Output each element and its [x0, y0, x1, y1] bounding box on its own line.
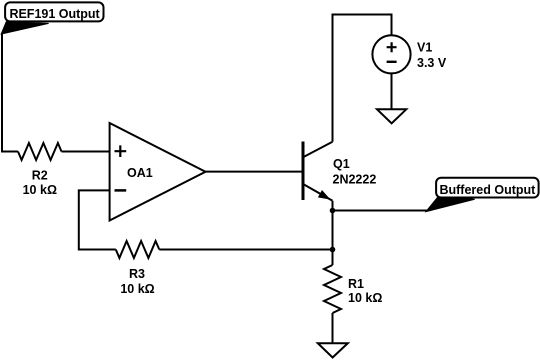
wire feedback node to R1	[332, 250, 334, 266]
wire output node to Buffered Output flag	[333, 210, 428, 212]
svg-text:R3: R3	[129, 267, 145, 281]
wire V1 to ground	[391, 73, 393, 109]
ground below R1	[318, 343, 348, 357]
svg-text:10 kΩ: 10 kΩ	[348, 291, 382, 305]
wire R1 to ground	[332, 313, 334, 343]
net flag REF191 Output	[1, 2, 103, 34]
wire op-amp output to Q1 base	[206, 171, 302, 173]
net flag Buffered Output	[426, 178, 539, 212]
svg-text:REF191 Output: REF191 Output	[9, 7, 100, 21]
wire feedback node to R3	[159, 249, 332, 251]
resistor R3	[116, 241, 160, 258]
svg-text:10 kΩ: 10 kΩ	[120, 282, 154, 296]
ground below V1	[377, 109, 406, 123]
svg-text:10 kΩ: 10 kΩ	[23, 183, 57, 197]
svg-text:V1: V1	[417, 40, 432, 54]
svg-text:R2: R2	[32, 169, 48, 183]
wire Q1 collector to V1	[333, 15, 392, 142]
voltage source V1	[372, 35, 410, 73]
resistor R1	[324, 265, 341, 313]
wire R3 to op-amp inverting input	[79, 190, 116, 249]
op-amp OA1	[110, 123, 206, 221]
transistor Q1	[303, 142, 333, 201]
svg-text:Q1: Q1	[333, 157, 350, 171]
wire output node to feedback node	[332, 211, 334, 250]
node output junction	[330, 208, 336, 214]
wire REF191 flag to R2	[2, 33, 18, 152]
svg-text:OA1: OA1	[127, 166, 153, 180]
wire R2 to op-amp non-inverting input	[62, 151, 110, 153]
resistor R2	[18, 143, 62, 160]
svg-text:R1: R1	[348, 277, 364, 291]
svg-text:Buffered Output: Buffered Output	[439, 183, 536, 197]
svg-text:2N2222: 2N2222	[333, 173, 377, 187]
svg-text:3.3 V: 3.3 V	[417, 56, 447, 70]
node feedback junction	[330, 247, 336, 253]
wire Q1 emitter to output node	[332, 201, 334, 211]
